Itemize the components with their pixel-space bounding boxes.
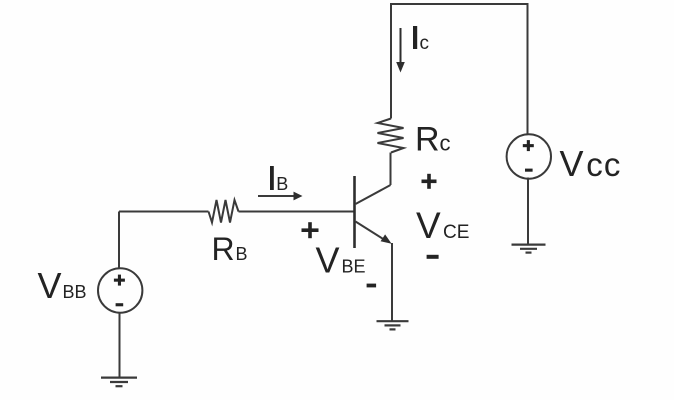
wire top rail bbox=[391, 3, 528, 5]
ground (emitter) bbox=[377, 321, 409, 329]
label RB bbox=[212, 231, 248, 267]
label minus VBE bbox=[367, 284, 377, 288]
svg-text:R: R bbox=[415, 121, 440, 159]
svg-text:B: B bbox=[236, 244, 248, 264]
label RC bbox=[415, 121, 451, 159]
ground (VCC) bbox=[512, 245, 546, 253]
wire collector top drop bbox=[390, 3, 392, 119]
svg-text:BB: BB bbox=[63, 282, 87, 302]
transistor Q1 bbox=[355, 176, 392, 248]
svg-text:R: R bbox=[212, 231, 235, 267]
svg-text:B: B bbox=[276, 174, 288, 194]
ground (VBB) bbox=[101, 378, 137, 387]
wire collector lower bbox=[390, 153, 392, 186]
wire emitter down bbox=[391, 243, 393, 321]
label IB bbox=[270, 166, 288, 194]
wire VBB source bottom lead bbox=[119, 312, 121, 377]
label VBE bbox=[316, 240, 366, 281]
svg-text:c: c bbox=[420, 33, 430, 54]
wire VCC source bottom lead bbox=[527, 178, 529, 244]
svg-text:V: V bbox=[560, 143, 584, 184]
svg-text:c: c bbox=[440, 131, 451, 156]
label IC bbox=[413, 26, 429, 54]
svg-text:V: V bbox=[316, 240, 340, 281]
svg-text:CE: CE bbox=[443, 222, 469, 243]
svg-text:BE: BE bbox=[342, 257, 366, 277]
arrow IC current bbox=[396, 28, 405, 73]
label minus VCE bbox=[427, 255, 439, 259]
wire VCC top drop bbox=[527, 3, 529, 134]
wire VBB source top lead bbox=[118, 212, 120, 270]
wire base from RB to transistor bbox=[239, 211, 355, 213]
label Vcc bbox=[560, 143, 622, 184]
wire base from VBB to RB bbox=[119, 211, 209, 213]
svg-text:V: V bbox=[38, 265, 62, 306]
label plus VCE bbox=[422, 174, 437, 189]
voltage source VCC bbox=[507, 134, 551, 178]
resistor RC bbox=[378, 119, 404, 153]
voltage source VBB bbox=[98, 268, 142, 312]
label VBB bbox=[38, 265, 87, 306]
svg-text:V: V bbox=[416, 205, 441, 246]
arrow IB current bbox=[258, 192, 303, 201]
resistor RB bbox=[209, 200, 239, 223]
label VCE bbox=[416, 205, 469, 246]
svg-text:cc: cc bbox=[586, 146, 621, 183]
label plus VBE bbox=[302, 222, 319, 238]
